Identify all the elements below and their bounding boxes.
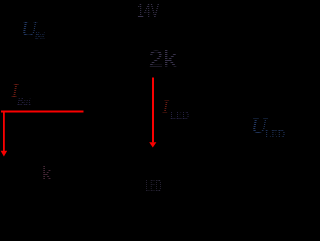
LED D1 xyxy=(142,160,162,176)
current I_LED arrow xyxy=(149,78,156,148)
wire bottom rail xyxy=(84,199,152,201)
current I_Bat arrow xyxy=(1,111,84,157)
resistor R1 xyxy=(141,22,163,68)
wire left branch xyxy=(83,10,85,200)
battery B1 xyxy=(74,120,94,132)
wire right branch xyxy=(151,10,153,200)
scanline texture overlays (decorative) xyxy=(8,2,288,194)
wire top rail xyxy=(84,9,152,11)
